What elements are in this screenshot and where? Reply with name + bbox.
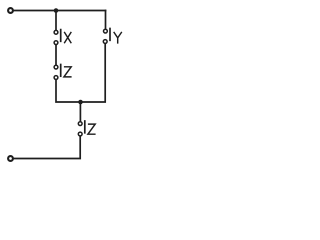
label Y [114, 32, 122, 44]
contact Z (output branch) [78, 121, 85, 136]
node middle junction [78, 100, 83, 105]
contact Z (left branch) [54, 65, 61, 80]
contact Y [103, 29, 110, 44]
label X [64, 32, 71, 43]
wire right branch lower [81, 44, 106, 102]
label Z (left branch) [64, 67, 72, 77]
wire right branch upper [105, 11, 107, 29]
wire top rail [14, 10, 106, 12]
contact X [54, 30, 61, 45]
wire left branch upper [55, 11, 57, 30]
terminal bottom-left [8, 156, 13, 161]
wire between X and Z [55, 45, 57, 65]
wire left branch lower [56, 80, 81, 102]
wire middle vertical [79, 102, 81, 121]
terminal top-left [8, 8, 13, 13]
label Z (output branch) [88, 124, 96, 134]
wire bottom [14, 136, 81, 158]
node top junction [54, 8, 59, 13]
